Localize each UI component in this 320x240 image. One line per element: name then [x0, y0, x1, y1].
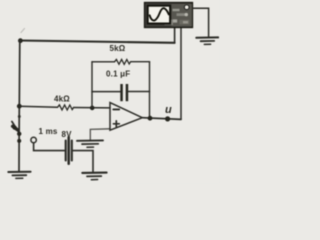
wire: feedback left vertical [91, 62, 93, 108]
oscilloscope screen [148, 6, 170, 24]
svg-text:u: u [165, 104, 172, 116]
wire: scope terminal B vertical down to output node [180, 28, 182, 120]
wire: top horizontal from left rail to scope terminal A [20, 41, 175, 43]
wire: scope terminal A stub down to top wire [174, 27, 176, 43]
svg-text:5kΩ: 5kΩ [110, 44, 126, 53]
source terminal circle [31, 137, 36, 142]
scan smudge above corner [21, 29, 25, 33]
wire: feedback right vertical [149, 62, 151, 119]
switch S1 lever on left rail [12, 122, 20, 134]
ground: bottom-right under battery [82, 172, 106, 174]
resistor R2 5kOhm zigzag [115, 59, 131, 64]
wire: non-inverting input to ground [90, 129, 110, 140]
wire: op-amp output [142, 118, 181, 120]
ground: bottom-left under rail [8, 171, 30, 173]
op-amp U1 triangle [110, 103, 142, 131]
oscilloscope connector circle [184, 5, 189, 10]
svg-text:0.1 μF: 0.1 μF [106, 69, 130, 78]
wire: 5k rail right segment [131, 61, 150, 63]
wire: capacitor rail left [92, 91, 120, 93]
op-amp minus marker [113, 108, 119, 110]
svg-text:4kΩ: 4kΩ [54, 94, 70, 103]
node: junction dot at 4k tap [17, 104, 22, 109]
ground: top-right scope ground [196, 36, 218, 38]
battery V1 plates [65, 141, 67, 161]
node: junction dot top-left corner [18, 38, 23, 43]
wire: left vertical rail [18, 41, 21, 172]
wire: battery to bottom-right ground [73, 151, 93, 173]
capacitor C1 plates [120, 84, 123, 101]
wire: source terminal down and right to battery [34, 143, 65, 151]
switch S1 contact dot [17, 132, 21, 136]
switch S1 pivot dot on rail [17, 139, 21, 143]
wire: resistor R1 to op-amp inverting input [74, 107, 110, 109]
wire: 5k rail left segment [92, 61, 115, 63]
oscilloscope trace sine wave [150, 8, 169, 20]
resistor R1 4kOhm zigzag [58, 105, 74, 110]
node: junction dot at scope tap, node u [165, 116, 170, 121]
wire: from tap to resistor R1 [19, 106, 57, 107]
node: feedback tap junction dot [90, 106, 95, 111]
node: junction dot at feedback/output [148, 116, 153, 121]
ground: at op-amp plus input [77, 139, 103, 141]
op-amp plus marker [113, 121, 119, 127]
oscilloscope body [145, 3, 193, 28]
oscilloscope panel speckles [172, 4, 193, 27]
wire: capacitor rail right [128, 91, 149, 93]
svg-text:1 ms: 1 ms [39, 127, 58, 136]
svg-text:8V: 8V [62, 130, 73, 139]
wire: scope right terminal to ground [193, 8, 209, 37]
